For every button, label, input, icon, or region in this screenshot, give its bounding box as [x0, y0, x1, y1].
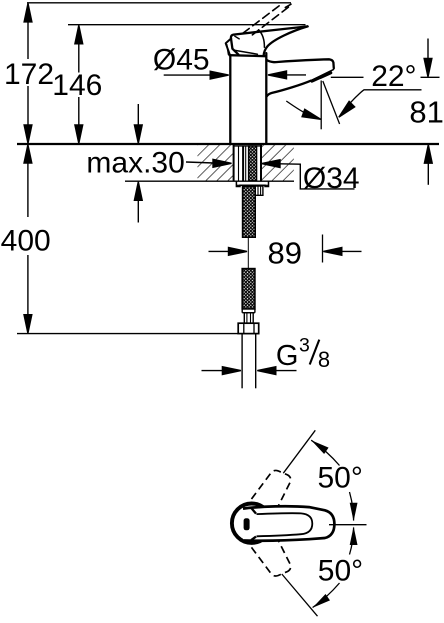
dimension 81 [424, 39, 432, 185]
dimension max.30 arrows [134, 104, 142, 223]
dimension 89 [209, 235, 362, 263]
lever corner hooks [251, 508, 256, 514]
extension line 146 level [68, 24, 306, 26]
svg-text:81: 81 [409, 95, 443, 130]
dashed raised lever tip cap [285, 4, 291, 7]
handle nose facets [226, 38, 232, 54]
dimension 400 line [24, 145, 32, 334]
counter bottom line [125, 180, 294, 182]
handle base line on body top [230, 55, 266, 56]
svg-text:G: G [276, 340, 299, 372]
lever outline top view [243, 506, 334, 540]
handle internal corner mark [235, 36, 239, 39]
extension line top (172 level) [27, 2, 291, 4]
dashed raised lever line B [252, 6, 290, 35]
dashed lever position lower [244, 538, 290, 576]
shank thread lines [238, 146, 240, 181]
centreline right of lever [329, 524, 367, 526]
faucet body left edge [229, 56, 231, 144]
svg-text:Ø45: Ø45 [153, 43, 210, 76]
shank left wall [233, 145, 235, 181]
aerator bars [312, 78, 319, 81]
handle grip mark [244, 518, 250, 530]
hose inside shank [249, 146, 257, 181]
lever inner outline [257, 513, 313, 536]
counter hatch left block [198, 145, 234, 181]
22 degree arc left [286, 101, 310, 116]
svg-text:Ø34: Ø34 [303, 162, 360, 195]
spout height reference line (81) [331, 76, 364, 78]
dashed lever position upper [244, 470, 290, 508]
handle lever outline [264, 26, 308, 55]
mounting flange [236, 181, 268, 187]
counter hatch right block [261, 145, 294, 181]
side tube stub [255, 186, 263, 195]
22 degree construction vertical line [320, 81, 322, 130]
countertop line [17, 143, 439, 145]
lever top view solid [232, 504, 335, 543]
handle internal diagonal [234, 50, 258, 54]
22 degree arc right with leader [342, 90, 422, 113]
shank right wall [260, 145, 262, 181]
svg-text:146: 146 [52, 69, 102, 102]
arc lower 50 [313, 583, 340, 608]
G3/8 fraction slash [310, 340, 320, 365]
connection nut G3/8 [238, 323, 259, 333]
dimension 172 line [24, 3, 32, 143]
flexible hose lower segment [242, 269, 255, 309]
svg-text:max.30: max.30 [86, 146, 184, 179]
spout underside [267, 81, 311, 97]
swivel line upper 50 [283, 430, 315, 473]
svg-text:50°: 50° [318, 462, 363, 495]
dashed raised lever line A [243, 4, 281, 33]
svg-text:50°: 50° [318, 554, 363, 587]
svg-text:172: 172 [4, 58, 54, 91]
hose end ferrule [242, 312, 255, 314]
svg-text:8: 8 [318, 347, 330, 372]
flexible hose upper segment [243, 186, 256, 237]
svg-text:400: 400 [1, 224, 51, 257]
swivel line lower 50 [282, 574, 318, 616]
hose centreline [247, 238, 249, 269]
faucet body right edge [265, 53, 267, 143]
svg-text:89: 89 [268, 236, 302, 271]
dimension G3/8 arrows [202, 367, 297, 375]
svg-text:22°: 22° [371, 60, 416, 93]
max.30 leader arrow [186, 159, 232, 167]
22 degree slanted stream line [323, 81, 340, 124]
diameter 34 leader [262, 160, 355, 189]
hose end reference line (400 level) [17, 333, 238, 335]
shank top seat line [234, 145, 261, 147]
handle internal contour [259, 30, 265, 48]
faucet body circle top view [232, 504, 271, 543]
spout top edge [267, 59, 334, 68]
aerator face [311, 70, 333, 81]
arc upper 50 [311, 440, 339, 465]
svg-text:3: 3 [299, 335, 310, 357]
dimension diameter45 arrows [164, 71, 306, 79]
supply pipe [241, 334, 243, 389]
dimension 146 line [75, 25, 83, 143]
